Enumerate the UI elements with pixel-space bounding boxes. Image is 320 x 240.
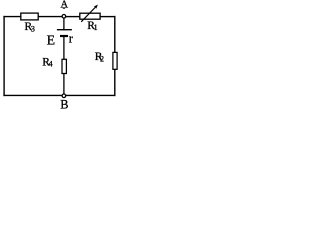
- label A: [61, 0, 69, 11]
- node B: [62, 94, 66, 98]
- svg-text:E: E: [47, 32, 55, 47]
- wire: battery to R4: [63, 37, 65, 60]
- wire: R4 down to node B: [63, 74, 65, 95]
- wire: bottom segment right (corner to node B): [66, 94, 116, 96]
- wire: top-left segment (left corner to R3): [3, 16, 20, 18]
- svg-text:r: r: [69, 32, 74, 46]
- battery E: short plate (negative): [60, 35, 68, 37]
- node A: [62, 14, 66, 18]
- resistor R4: [62, 59, 66, 73]
- svg-text:2: 2: [100, 55, 104, 64]
- svg-text:1: 1: [94, 23, 98, 32]
- label R4: [42, 56, 52, 68]
- wire: right side top (corner down to R2): [114, 16, 116, 53]
- label R3: [25, 21, 35, 34]
- wire: R1 to top-right corner: [100, 16, 115, 18]
- battery E: long plate (positive): [57, 29, 72, 31]
- resistor R2: [113, 52, 117, 69]
- wire: node A down to battery: [63, 18, 65, 30]
- wire: top middle segment (R3 to node A): [38, 16, 62, 18]
- resistor R3: [21, 13, 38, 20]
- rheostat R1 (variable resistor box): [80, 13, 100, 19]
- label R2: [95, 51, 104, 64]
- label R1: [87, 20, 97, 32]
- svg-text:A: A: [61, 0, 69, 11]
- wire: bottom segment left (node B to bottom-left corner): [3, 94, 61, 96]
- svg-text:3: 3: [31, 25, 35, 34]
- svg-text:4: 4: [49, 60, 53, 69]
- wire: node A to R1: [66, 16, 80, 18]
- svg-text:B: B: [60, 97, 68, 111]
- wire: left side (bottom-left corner up to top-left corner): [3, 16, 5, 96]
- wire: right side bottom (R2 to bottom-right corner): [114, 69, 116, 96]
- rheostat R1 arrow: [81, 5, 98, 22]
